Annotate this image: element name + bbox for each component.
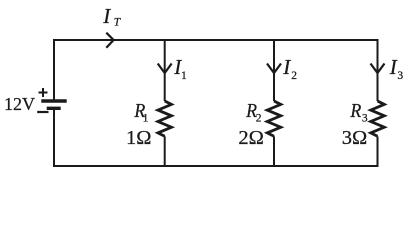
svg-text:I: I bbox=[102, 4, 111, 28]
resistor R1 zigzag bbox=[158, 101, 172, 136]
wire branch 3 lower (right side) bbox=[377, 136, 379, 167]
svg-text:3Ω: 3Ω bbox=[342, 127, 368, 149]
svg-text:2: 2 bbox=[291, 70, 297, 82]
battery V1 12V bbox=[37, 88, 66, 112]
svg-text:I: I bbox=[282, 55, 291, 79]
arrow I1 (down, branch 1) bbox=[158, 64, 172, 74]
arrow I2 (down, branch 2) bbox=[267, 64, 281, 74]
svg-text:1: 1 bbox=[143, 113, 149, 125]
wire top (node T) bbox=[54, 39, 378, 41]
resistor R3 zigzag bbox=[371, 101, 385, 136]
wire branch 2 upper bbox=[273, 39, 275, 101]
resistor R2 zigzag bbox=[267, 101, 281, 136]
svg-text:3: 3 bbox=[362, 113, 368, 125]
svg-text:T: T bbox=[114, 16, 122, 28]
wire left lower (battery - to bottom) bbox=[53, 110, 55, 167]
wire left upper (battery + to top) bbox=[53, 39, 55, 100]
arrow I_T (right, on top wire) bbox=[106, 33, 113, 48]
svg-text:1Ω: 1Ω bbox=[126, 127, 152, 149]
svg-text:2Ω: 2Ω bbox=[238, 127, 264, 149]
battery minus mark bbox=[37, 111, 48, 113]
svg-text:3: 3 bbox=[397, 70, 403, 82]
arrow I3 (down, branch 3) bbox=[371, 64, 385, 74]
svg-text:R: R bbox=[349, 100, 361, 122]
svg-text:12V: 12V bbox=[4, 94, 35, 114]
wire branch 1 lower bbox=[164, 136, 166, 166]
svg-text:1: 1 bbox=[181, 70, 187, 82]
wire branch 1 upper bbox=[164, 39, 166, 101]
wire bottom (node B) bbox=[53, 165, 379, 167]
wire branch 2 lower bbox=[273, 136, 275, 166]
wire branch 3 upper (right side) bbox=[377, 39, 379, 101]
battery plus mark bbox=[39, 88, 48, 97]
svg-text:2: 2 bbox=[256, 113, 262, 125]
